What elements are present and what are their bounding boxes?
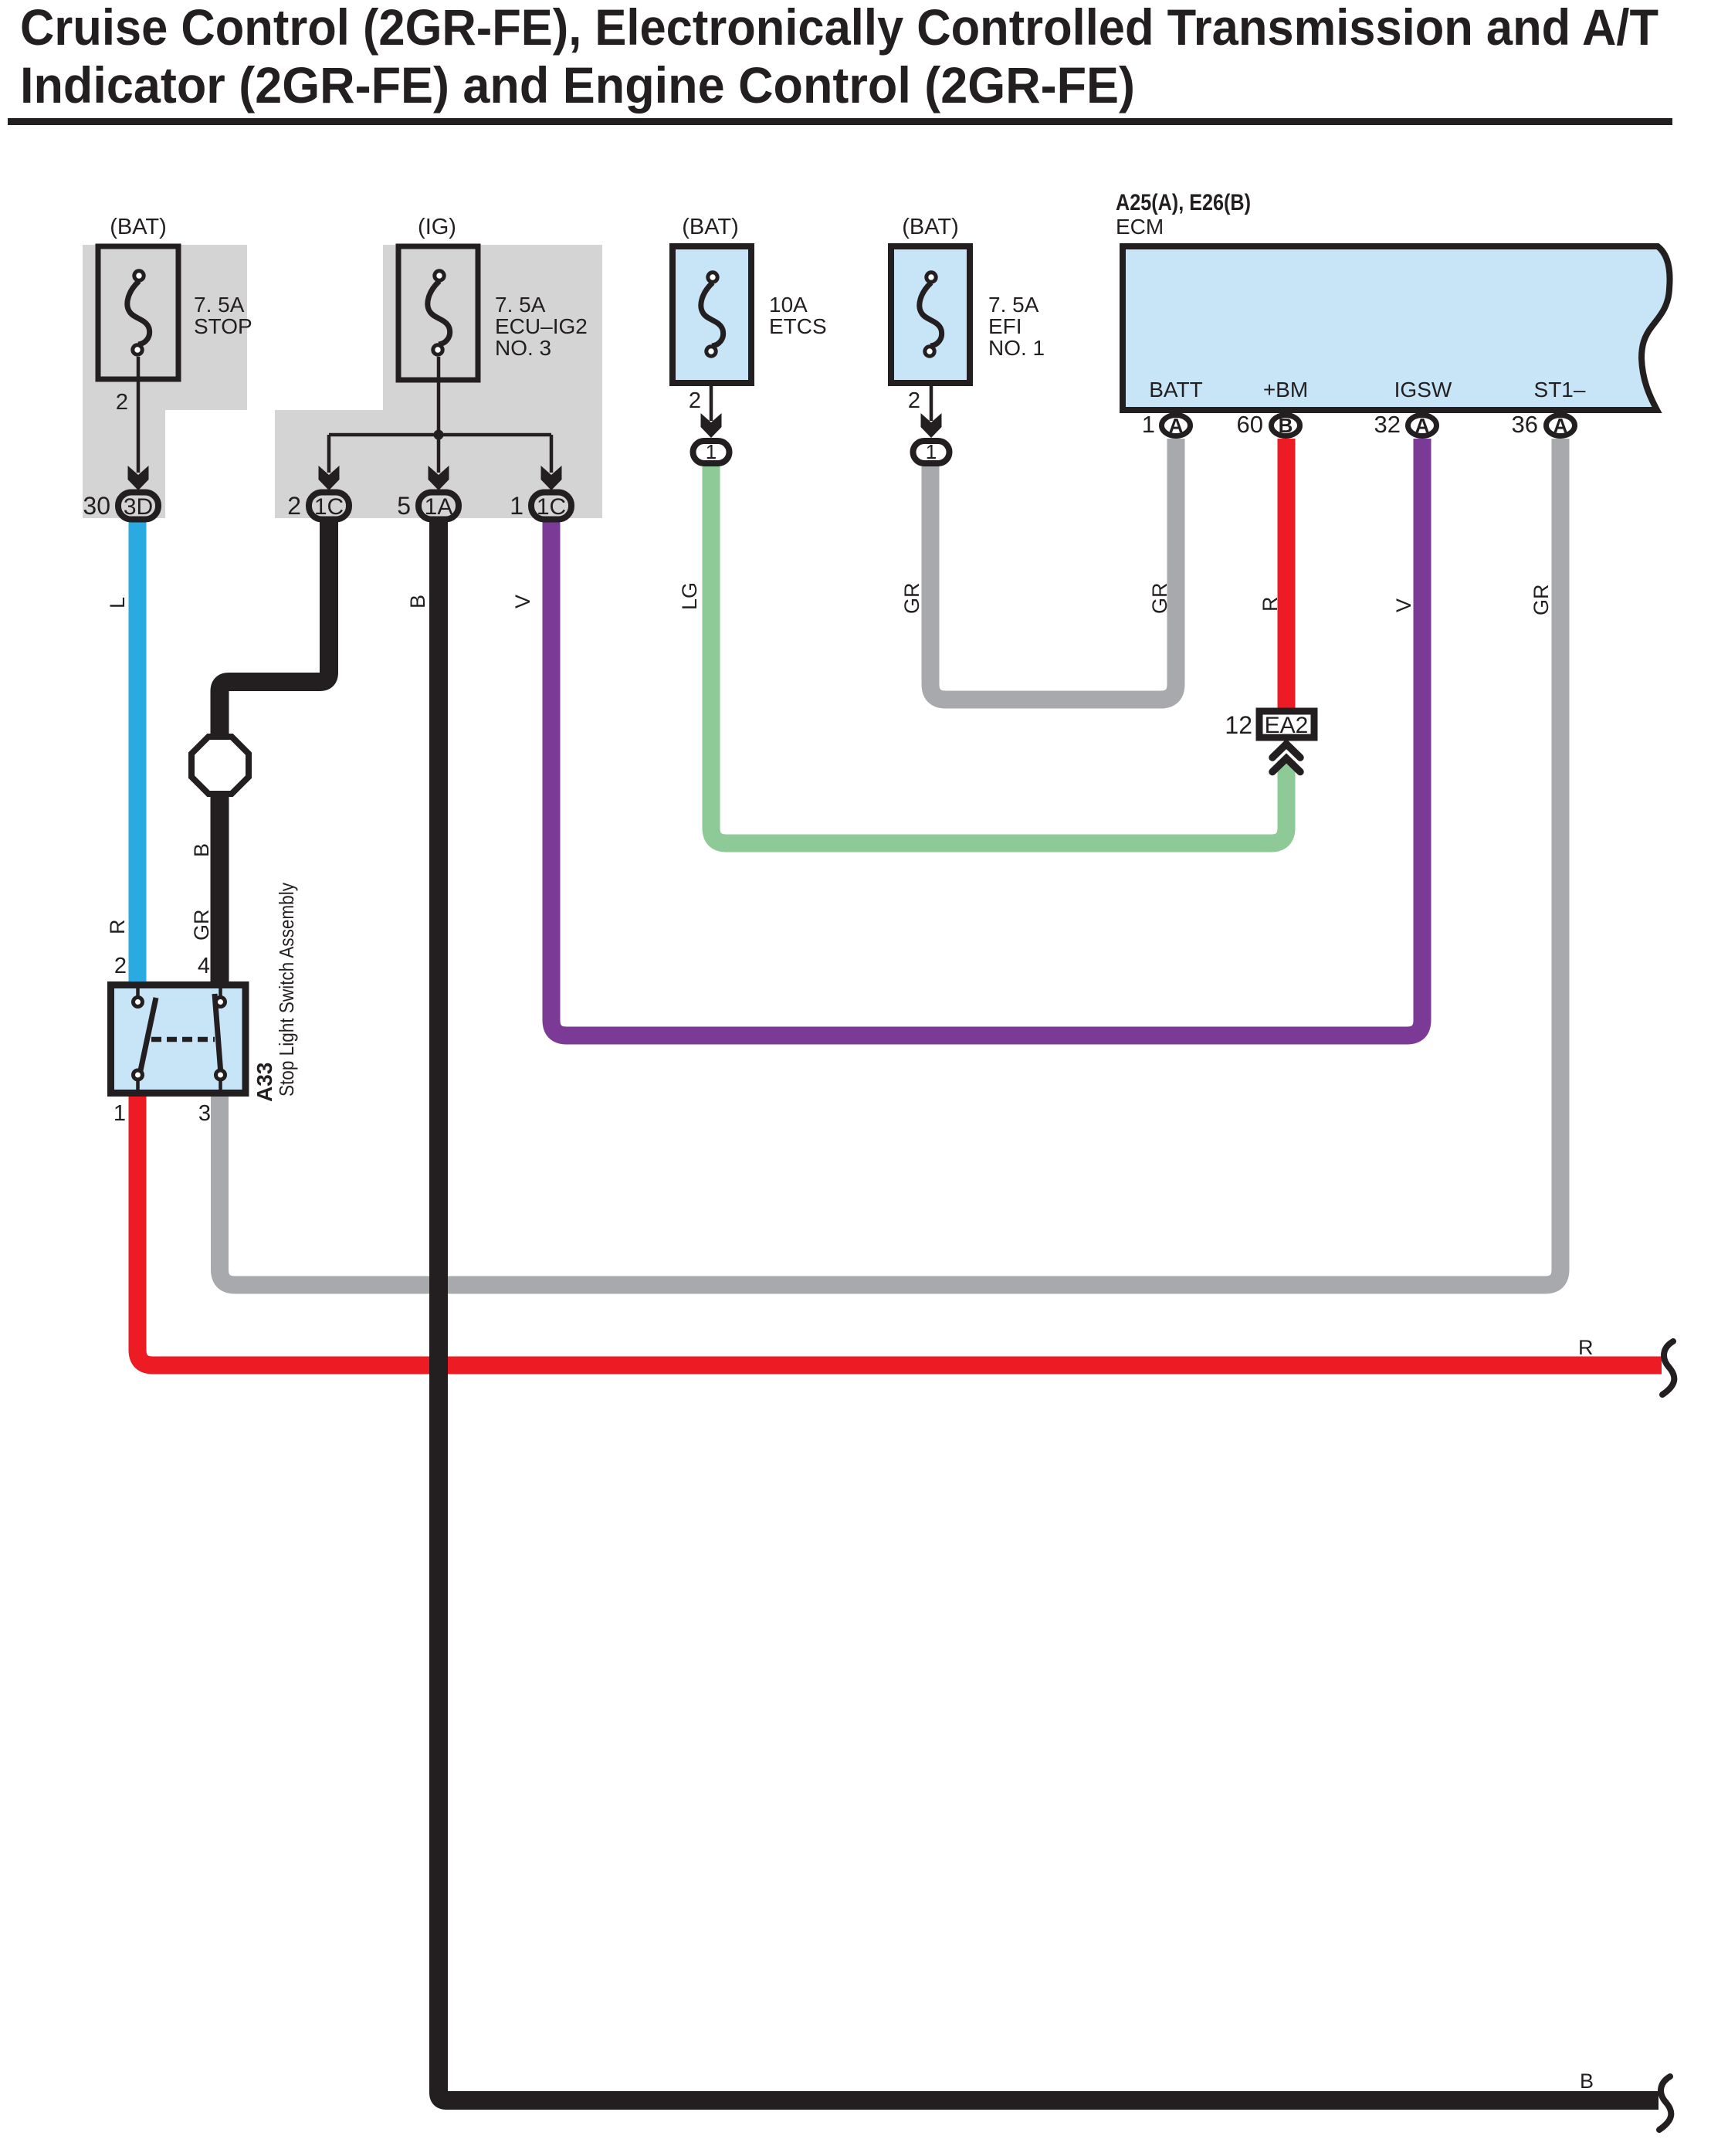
- svg-text:1A: 1A: [425, 494, 453, 520]
- svg-text:A25(A), E26(B): A25(A), E26(B): [1116, 190, 1251, 215]
- svg-text:B: B: [190, 843, 213, 857]
- svg-text:GR: GR: [900, 583, 923, 615]
- svg-text:B: B: [1279, 414, 1293, 437]
- svg-text:32: 32: [1374, 411, 1401, 438]
- svg-text:EFI: EFI: [988, 314, 1022, 338]
- svg-text:1: 1: [510, 492, 523, 520]
- svg-text:+BM: +BM: [1263, 378, 1308, 402]
- svg-text:A: A: [1415, 414, 1430, 437]
- svg-text:ST1–: ST1–: [1534, 378, 1586, 402]
- svg-text:EA2: EA2: [1265, 713, 1309, 738]
- svg-text:5: 5: [397, 492, 411, 520]
- svg-text:ECM: ECM: [1116, 215, 1164, 239]
- svg-text:(BAT): (BAT): [902, 215, 959, 239]
- svg-text:STOP: STOP: [194, 314, 252, 338]
- svg-text:V: V: [1392, 598, 1415, 612]
- svg-text:A: A: [1553, 414, 1568, 437]
- svg-text:7. 5A: 7. 5A: [988, 293, 1039, 317]
- svg-text:2: 2: [689, 388, 701, 413]
- svg-text:2: 2: [287, 492, 301, 520]
- svg-text:(BAT): (BAT): [682, 215, 739, 239]
- svg-text:IGSW: IGSW: [1394, 378, 1452, 402]
- svg-text:Indicator (2GR-FE) and Engine: Indicator (2GR-FE) and Engine Control (2…: [20, 56, 1135, 114]
- svg-text:ECU–IG2: ECU–IG2: [495, 314, 588, 338]
- svg-text:B: B: [406, 595, 429, 608]
- svg-text:NO. 3: NO. 3: [495, 336, 551, 360]
- svg-text:ETCS: ETCS: [769, 314, 827, 338]
- svg-text:4: 4: [198, 954, 210, 978]
- svg-text:(BAT): (BAT): [110, 215, 167, 239]
- svg-text:1: 1: [1142, 411, 1155, 438]
- svg-text:2: 2: [114, 954, 127, 978]
- svg-text:7. 5A: 7. 5A: [194, 293, 245, 317]
- svg-text:NO. 1: NO. 1: [988, 336, 1045, 360]
- svg-text:2: 2: [116, 390, 128, 415]
- svg-text:3: 3: [198, 1101, 211, 1126]
- svg-text:1C: 1C: [314, 494, 344, 520]
- svg-text:1: 1: [926, 440, 937, 463]
- svg-text:3D: 3D: [124, 494, 153, 520]
- svg-text:7. 5A: 7. 5A: [495, 293, 546, 317]
- svg-text:V: V: [511, 595, 534, 608]
- svg-text:A33: A33: [252, 1063, 276, 1102]
- svg-text:(IG): (IG): [418, 215, 456, 239]
- svg-text:A: A: [1169, 414, 1184, 437]
- svg-text:30: 30: [83, 492, 110, 520]
- svg-text:B: B: [1580, 2070, 1594, 2093]
- svg-text:10A: 10A: [769, 293, 808, 317]
- svg-text:L: L: [106, 597, 129, 608]
- svg-text:36: 36: [1512, 411, 1538, 438]
- svg-text:GR: GR: [1148, 583, 1171, 615]
- svg-text:LG: LG: [678, 582, 701, 610]
- svg-text:1: 1: [114, 1101, 126, 1126]
- svg-text:60: 60: [1237, 411, 1263, 438]
- svg-text:GR: GR: [1530, 585, 1553, 616]
- svg-text:R: R: [1578, 1336, 1594, 1359]
- svg-text:Cruise Control (2GR-FE), Elect: Cruise Control (2GR-FE), Electronically …: [20, 0, 1658, 56]
- svg-text:1: 1: [706, 440, 717, 463]
- svg-text:12: 12: [1225, 711, 1252, 739]
- svg-text:R: R: [106, 920, 129, 935]
- svg-text:R: R: [1259, 597, 1282, 612]
- svg-text:GR: GR: [190, 910, 213, 941]
- svg-text:Stop Light Switch Assembly: Stop Light Switch Assembly: [275, 883, 298, 1097]
- svg-text:2: 2: [908, 388, 920, 413]
- svg-text:1C: 1C: [537, 494, 566, 520]
- svg-text:BATT: BATT: [1149, 378, 1202, 402]
